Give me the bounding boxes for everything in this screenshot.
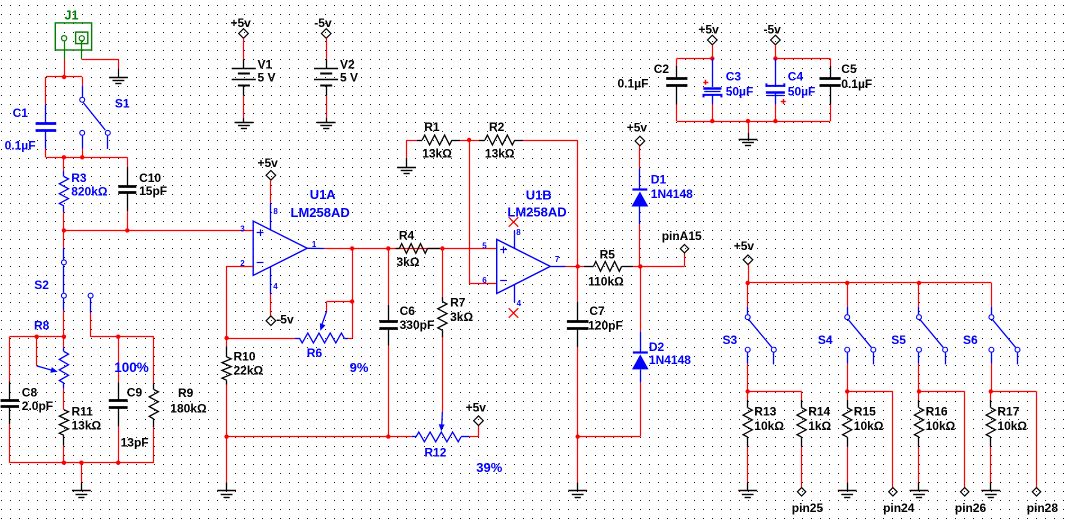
svg-text:-5v: -5v <box>314 16 332 30</box>
capacitor C1 0.1uF <box>5 105 57 153</box>
wire C4 to rail <box>775 105 777 122</box>
node pin2-R6-R10 <box>224 336 228 340</box>
wire C2 to rail <box>676 105 678 122</box>
ground (R16) <box>910 491 929 498</box>
svg-text:0.1µF: 0.1µF <box>5 139 36 153</box>
node S6 output <box>989 389 993 393</box>
no-connect X (U1B pin8) <box>509 217 519 227</box>
wire J1 pin2 to ground <box>82 42 119 78</box>
wire bus to S3 <box>747 283 749 307</box>
wire U1A pin2 <box>227 267 254 339</box>
potentiometer R6 <box>295 311 348 360</box>
node bus-R3 <box>62 155 66 159</box>
wire +5v to U1A pin8 <box>270 180 272 203</box>
wire tee to wiper <box>327 302 353 312</box>
wire R7 to R12 wiper <box>442 337 444 412</box>
node S4 output <box>845 389 849 393</box>
wire bus corner to C10 <box>127 157 129 167</box>
ground (R1) <box>397 168 416 174</box>
svg-text:10kΩ: 10kΩ <box>754 419 784 433</box>
svg-text:110kΩ: 110kΩ <box>588 275 624 289</box>
label 100% <box>114 360 149 375</box>
svg-text:R7: R7 <box>450 296 466 310</box>
wire R15 to ground <box>847 447 849 491</box>
diode D1 1N4148 <box>632 169 694 225</box>
svg-text:D2: D2 <box>649 340 665 354</box>
wire output node to C7 <box>577 266 579 301</box>
node R3 bottom <box>62 228 66 232</box>
svg-text:V1: V1 <box>258 58 273 72</box>
wire J1 pin1 lead <box>64 41 66 77</box>
svg-text:10kΩ: 10kΩ <box>926 419 956 433</box>
wire main node to S2 <box>63 230 65 247</box>
svg-text:820kΩ: 820kΩ <box>71 185 108 199</box>
capacitor C4 50uF electrolytic <box>766 59 815 105</box>
wire S6 branch <box>991 391 1037 487</box>
connector pin26 <box>955 488 987 515</box>
wire +5v to V1 <box>243 38 245 59</box>
node +5v cap <box>710 56 714 60</box>
svg-text:J1: J1 <box>65 9 79 23</box>
node J1-C1-S1 junction <box>62 75 66 79</box>
wire junction to C1 <box>46 77 83 105</box>
svg-text:120pF: 120pF <box>588 318 623 332</box>
wire R14 to pin25 <box>801 447 803 488</box>
svg-text:V2: V2 <box>340 58 355 72</box>
label 39% <box>476 460 502 475</box>
resistor R9 180k <box>149 384 207 428</box>
svg-text:R10: R10 <box>234 350 256 364</box>
svg-text:15pF: 15pF <box>139 184 167 198</box>
resistor R15 10k <box>843 391 884 447</box>
wire D1 to node <box>639 224 641 266</box>
svg-text:1N4148: 1N4148 <box>649 353 691 367</box>
wire U1A pin4 to -5v <box>270 294 272 316</box>
svg-text:R15: R15 <box>854 405 876 419</box>
wire rail to C9 <box>118 337 120 383</box>
svg-text:+5v: +5v <box>466 401 487 415</box>
svg-text:C4: C4 <box>788 70 804 84</box>
resistor R2 13k <box>469 120 523 161</box>
ground (R10) <box>217 491 236 498</box>
wire rail to ground <box>81 463 83 491</box>
connector pin25 <box>792 488 824 515</box>
svg-text:S1: S1 <box>115 96 130 110</box>
svg-text:S6: S6 <box>963 333 978 347</box>
wire R11 to bottom rail <box>63 446 65 463</box>
svg-text:C1: C1 <box>13 106 29 120</box>
wire R9 to bottom rail <box>153 427 155 463</box>
svg-text:S5: S5 <box>891 333 906 347</box>
wire R10 to ground node <box>226 385 228 437</box>
resistor R10 22k <box>222 338 264 385</box>
capacitor C6 330pF <box>379 304 434 346</box>
resistor R4 3k <box>396 228 441 269</box>
svg-text:50µF: 50µF <box>726 85 754 99</box>
wire output to R6 <box>352 249 354 302</box>
wire cap rail <box>677 121 830 123</box>
node rail-wiper <box>35 335 39 339</box>
wire node to pinA15 <box>640 253 684 267</box>
wire bottom rail mid <box>227 436 389 438</box>
svg-text:R3: R3 <box>71 171 87 185</box>
power -5v symbol (V2) <box>314 16 332 39</box>
svg-text:LM258AD: LM258AD <box>507 205 566 220</box>
svg-text:13pF: 13pF <box>121 435 149 449</box>
svg-text:R16: R16 <box>926 405 948 419</box>
wire rail to ground <box>748 121 750 140</box>
node bus-S5 <box>917 281 921 285</box>
svg-text:+5v: +5v <box>698 22 719 36</box>
wire S6 to node <box>991 364 993 392</box>
svg-text:R9: R9 <box>178 386 194 400</box>
switch S5 <box>891 307 947 365</box>
power +5v symbol (D1) <box>627 120 648 146</box>
svg-text:pin26: pin26 <box>955 501 987 515</box>
wire rail to R12 <box>388 436 412 438</box>
svg-text:S3: S3 <box>723 333 738 347</box>
power +5v symbol (switch bank) <box>734 239 755 265</box>
wire C5 to rail <box>830 105 832 122</box>
wire C1 to bus <box>45 149 47 157</box>
connector J1 <box>55 9 91 51</box>
node rail-R11 <box>62 461 66 465</box>
svg-text:pinA15: pinA15 <box>662 229 702 243</box>
power -5v symbol (U1A pin4) <box>266 312 294 326</box>
svg-text:R17: R17 <box>997 405 1019 419</box>
wire U1A output <box>324 248 442 250</box>
node rail-ground <box>79 461 83 465</box>
power +5v symbol (U1A pin8) <box>258 156 279 180</box>
node C7-D2-ground <box>576 434 580 438</box>
svg-text:R4: R4 <box>399 228 415 242</box>
node rail-C9 <box>116 461 120 465</box>
op-amp U1A LM258AD <box>240 187 349 294</box>
svg-text:R5: R5 <box>600 248 616 262</box>
wire R13 to ground <box>747 447 749 491</box>
resistor R7 3k <box>438 296 474 338</box>
resistor R13 10k <box>743 391 784 447</box>
capacitor C9 13pF <box>109 382 149 449</box>
resistor R5 110k <box>578 248 633 289</box>
wire R3 to main node <box>63 212 65 230</box>
svg-text:-5v: -5v <box>764 22 782 36</box>
svg-text:10kΩ: 10kΩ <box>997 419 1027 433</box>
wire node to D2 <box>640 266 642 331</box>
svg-text:1N4148: 1N4148 <box>651 187 693 201</box>
wire ground drop (C7) <box>577 437 579 491</box>
wire left rail <box>10 336 64 338</box>
power +5v symbol (V1) <box>231 16 252 39</box>
svg-text:LM258AD: LM258AD <box>291 205 350 220</box>
wire S4 branch <box>847 391 893 487</box>
svg-text:50µF: 50µF <box>788 85 816 99</box>
wire ground to R1 <box>407 140 418 168</box>
svg-text:-5v: -5v <box>276 312 294 326</box>
svg-text:C2: C2 <box>654 62 670 76</box>
wire S2 right to C9 rail <box>91 313 154 337</box>
node R5-D1-D2 <box>638 264 642 268</box>
wire -5v to V2 <box>326 38 328 59</box>
svg-text:+5v: +5v <box>231 16 252 30</box>
op-amp U1B LM258AD <box>482 188 566 309</box>
wire R17 to ground <box>990 447 992 491</box>
ground (filter) <box>72 491 91 498</box>
switch S4 <box>818 307 876 365</box>
svg-text:5: 5 <box>482 241 487 250</box>
wire junction to S1 <box>82 77 84 86</box>
wire U1B output <box>566 266 578 268</box>
svg-text:13kΩ: 13kΩ <box>422 147 452 161</box>
wire +5v to node <box>712 45 714 59</box>
wire bus to S5 <box>918 283 920 307</box>
svg-text:39%: 39% <box>476 460 502 475</box>
svg-text:0.1µF: 0.1µF <box>618 77 649 91</box>
resistor R17 10k <box>986 391 1027 447</box>
wire C6 to rail <box>388 346 390 437</box>
connector pin24 <box>883 488 915 515</box>
capacitor C5 0.1uF <box>820 62 873 105</box>
wire bus <box>46 157 127 159</box>
svg-text:5 V: 5 V <box>258 71 276 85</box>
svg-text:C8: C8 <box>22 386 38 400</box>
power +5v symbol (C3) <box>698 22 719 45</box>
svg-text:R11: R11 <box>72 405 94 419</box>
power -5v symbol (C4) <box>764 22 782 45</box>
wire V2 to ground <box>326 96 328 123</box>
node R1-R2-feedback <box>467 138 471 142</box>
wire R16 to ground <box>918 447 920 491</box>
svg-text:4: 4 <box>517 299 522 308</box>
svg-text:pin25: pin25 <box>792 501 824 515</box>
wire +5v to D1 <box>639 146 641 169</box>
wire R2 to output node <box>523 140 578 266</box>
wire bottom rail <box>10 462 154 464</box>
wire R1 to node <box>460 140 469 142</box>
svg-text:1: 1 <box>312 240 317 249</box>
wire ground drop (R10) <box>226 437 228 491</box>
battery V1 5V <box>232 58 276 96</box>
wire R12 to +5v <box>469 426 479 437</box>
switch S1 <box>80 86 130 149</box>
wire S1 to bus <box>82 149 84 157</box>
svg-text:7: 7 <box>555 255 560 264</box>
power +5v symbol (R12) <box>466 401 487 426</box>
svg-text:1kΩ: 1kΩ <box>808 419 831 433</box>
svg-text:C5: C5 <box>841 62 857 76</box>
wire pin2 node to R6 <box>227 338 295 340</box>
svg-text:180kΩ: 180kΩ <box>170 402 207 416</box>
capacitor C2 0.1uF <box>618 62 688 105</box>
svg-text:+5v: +5v <box>734 239 755 253</box>
wire V1 to ground <box>243 96 245 123</box>
ground (R17) <box>981 491 1000 498</box>
svg-text:9%: 9% <box>350 360 369 375</box>
switch S6 <box>963 307 1020 365</box>
svg-text:8: 8 <box>516 228 521 237</box>
svg-text:+5v: +5v <box>627 120 648 134</box>
resistor R16 10k <box>914 391 955 447</box>
wire C8 to bottom rail <box>9 424 11 463</box>
node rail-R8 <box>62 335 66 339</box>
wire bus to S4 <box>847 283 849 307</box>
node U1B output <box>576 264 580 268</box>
wire R4 to U1B pin5 <box>440 248 497 250</box>
svg-text:D1: D1 <box>651 173 667 187</box>
svg-text:+5v: +5v <box>258 156 279 170</box>
svg-text:C6: C6 <box>400 304 416 318</box>
svg-text:C7: C7 <box>589 304 605 318</box>
node C10 bottom <box>125 228 129 232</box>
connector pinA15 <box>662 229 702 253</box>
wire -5v to node <box>775 45 777 59</box>
node S3 output <box>746 389 750 393</box>
wire rail to R9 <box>153 337 155 384</box>
wire C9 to bottom rail <box>118 426 120 462</box>
capacitor C8 2.0pF <box>1 382 54 425</box>
node rail-ground (caps) <box>746 119 750 123</box>
node bus-S4 <box>845 281 849 285</box>
ground (C7) <box>568 491 587 498</box>
capacitor C10 15pF <box>118 167 167 211</box>
wire S4 to node <box>847 364 849 392</box>
svg-text:330pF: 330pF <box>400 318 435 332</box>
label 9% <box>350 360 369 375</box>
svg-text:C10: C10 <box>139 171 161 185</box>
node C6-rail-R12 <box>386 434 390 438</box>
node R10-ground-rail <box>224 434 228 438</box>
wire S2 left to rail <box>63 311 65 337</box>
switch S3 <box>723 307 777 365</box>
svg-text:R8: R8 <box>34 319 50 333</box>
svg-text:2.0pF: 2.0pF <box>22 399 53 413</box>
svg-text:R12: R12 <box>424 446 446 460</box>
node rail-C4 <box>773 119 777 123</box>
wire bank bus <box>748 282 992 284</box>
svg-text:C3: C3 <box>726 70 742 84</box>
ground (V2) <box>317 123 336 129</box>
wire C7 to ground node <box>577 347 579 436</box>
ground (caps) <box>739 140 758 146</box>
resistor R11 13k <box>59 405 101 446</box>
node bus-S3 <box>746 281 750 285</box>
wire R5 to diode node <box>633 266 640 268</box>
svg-text:pin28: pin28 <box>1027 501 1059 515</box>
no-connect X (U1B pin4) <box>509 308 519 318</box>
node S5 output <box>917 389 921 393</box>
svg-text:22kΩ: 22kΩ <box>234 364 264 378</box>
wire bus to S6 <box>991 283 993 307</box>
node R6 feedback tee <box>350 299 354 303</box>
svg-text:R6: R6 <box>307 346 323 360</box>
ground (R13) <box>738 491 757 498</box>
svg-text:3: 3 <box>240 225 245 234</box>
svg-text:100%: 100% <box>114 360 149 375</box>
wire D2 to C7 rail <box>578 383 641 437</box>
wire R8 wiper <box>36 337 38 366</box>
wire node to R7 <box>442 249 444 298</box>
svg-text:R2: R2 <box>489 120 505 134</box>
svg-text:8: 8 <box>273 207 278 216</box>
wire +5v node to C2 <box>677 59 713 67</box>
potentiometer R8 <box>34 319 69 389</box>
svg-text:S2: S2 <box>34 278 49 292</box>
ground (V1) <box>235 123 254 129</box>
ground (J1) <box>109 78 128 84</box>
svg-text:0.1µF: 0.1µF <box>841 77 872 91</box>
wire S5 to node <box>918 364 920 392</box>
wire main to U1A pin3 <box>64 230 253 232</box>
svg-text:U1B: U1B <box>526 188 552 203</box>
svg-text:3kΩ: 3kΩ <box>397 255 420 269</box>
svg-text:C9: C9 <box>127 386 143 400</box>
node -5v cap <box>773 56 777 60</box>
node bus-S1 <box>80 155 84 159</box>
wire C3 to rail <box>712 105 714 122</box>
svg-text:3kΩ: 3kΩ <box>450 310 473 324</box>
ground (R15) <box>838 491 857 498</box>
svg-text:R1: R1 <box>424 120 440 134</box>
wire C10 to main node <box>127 211 129 230</box>
svg-text:4: 4 <box>273 282 278 291</box>
node output-R6 <box>350 246 354 250</box>
svg-text:R14: R14 <box>808 405 830 419</box>
svg-text:13kΩ: 13kΩ <box>72 418 102 432</box>
wire S3 branch <box>748 391 802 400</box>
wire -5v node to C5 <box>775 59 830 67</box>
svg-text:5 V: 5 V <box>340 71 358 85</box>
node right rail-C9 <box>116 335 120 339</box>
switch S2 <box>34 248 93 313</box>
svg-text:U1A: U1A <box>310 187 337 202</box>
svg-text:13kΩ: 13kΩ <box>485 147 515 161</box>
resistor R3 820k <box>59 157 108 212</box>
capacitor C7 120pF <box>567 302 623 348</box>
wire +5v to bank bus <box>748 265 750 283</box>
wire R8 to R11 <box>63 389 65 410</box>
wire tee to R6 right <box>348 302 353 339</box>
svg-text:6: 6 <box>482 276 487 285</box>
node rail-C3 <box>710 119 714 123</box>
potentiometer R12 <box>412 412 469 460</box>
svg-text:10kΩ: 10kΩ <box>854 419 884 433</box>
battery V2 5V <box>314 58 358 96</box>
wire output to C6 <box>388 249 390 306</box>
svg-text:pin24: pin24 <box>883 501 915 515</box>
wire rail to C8 <box>9 337 11 382</box>
wire S3 to node <box>747 364 749 392</box>
node output-C6 <box>386 246 390 250</box>
wire S5 branch <box>919 391 965 487</box>
diode D2 1N4148 <box>632 332 691 383</box>
node R4-R7 <box>440 246 444 250</box>
connector pin28 <box>1027 488 1059 515</box>
resistor R14 1k <box>797 400 832 447</box>
wire feedback to U1B pin6 <box>469 140 497 284</box>
resistor R1 13k <box>417 120 460 161</box>
svg-text:S4: S4 <box>818 333 833 347</box>
capacitor C3 50uF electrolytic <box>703 59 753 105</box>
svg-text:R13: R13 <box>754 405 776 419</box>
